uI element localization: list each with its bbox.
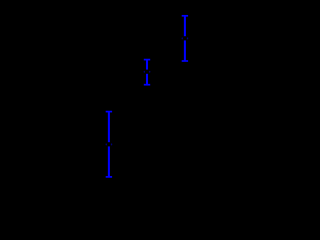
C2 right node dot xyxy=(149,71,150,73)
capacitor C3 (blue vertical element) xyxy=(106,112,113,177)
C1 top plate/cap xyxy=(182,15,188,17)
C1 right node dot xyxy=(187,37,188,39)
C3 top plate/cap xyxy=(106,111,112,113)
C2 lower lead wire xyxy=(146,74,148,85)
capacitor C2 (blue vertical element) xyxy=(144,60,151,85)
C1 bottom plate/cap xyxy=(182,60,188,62)
C2 left node dot xyxy=(144,71,145,73)
C1 left node dot xyxy=(182,37,183,39)
C1 upper lead wire xyxy=(184,16,186,36)
C3 left node dot xyxy=(106,143,107,145)
C3 bottom plate/cap xyxy=(106,176,112,178)
C3 lower lead wire xyxy=(108,146,110,177)
C2 top plate/cap xyxy=(144,59,150,61)
C2 bottom plate/cap xyxy=(144,84,150,86)
C1 lower lead wire xyxy=(184,40,186,61)
C2 upper lead wire xyxy=(146,60,148,70)
capacitor C1 (blue vertical element) xyxy=(182,16,189,61)
C3 upper lead wire xyxy=(108,112,110,143)
C3 right node dot xyxy=(111,143,112,145)
